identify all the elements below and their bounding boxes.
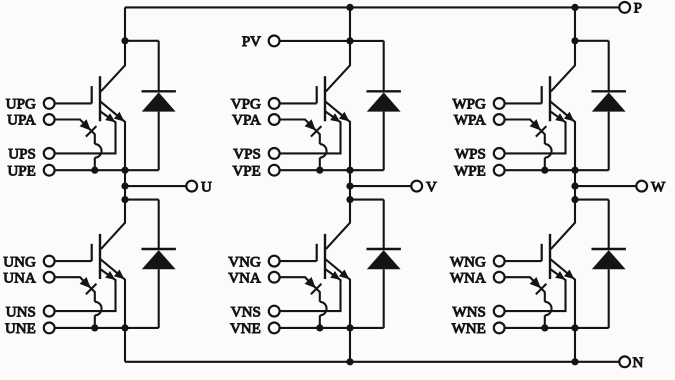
transistor VP gate lead xyxy=(280,102,317,104)
wire WN diode cathode link xyxy=(575,199,609,201)
transistor UN gate bar xyxy=(91,244,93,261)
diode WN body xyxy=(592,250,626,269)
arrow WN main emitter xyxy=(564,270,575,280)
arrow VP sense emitter xyxy=(330,113,340,122)
hop VN aux over sense wire xyxy=(320,302,327,316)
junction UP emitter/trunk xyxy=(121,167,128,174)
svg-text:VPS: VPS xyxy=(233,147,261,163)
svg-text:P: P xyxy=(634,1,642,17)
wire UP aux to emitter row xyxy=(94,158,96,171)
svg-text:UNS: UNS xyxy=(6,304,36,320)
junction UP diode link xyxy=(121,37,128,44)
transistor WN body bar xyxy=(549,234,551,279)
wire W output lead xyxy=(575,185,636,187)
wire WN aux to emitter row xyxy=(544,315,546,328)
svg-text:VNA: VNA xyxy=(228,270,261,286)
junction on N rail (V leg) xyxy=(346,358,353,365)
wire WP aux to emitter row xyxy=(544,158,546,171)
pin UPE xyxy=(44,165,55,176)
junction on P rail (V leg) xyxy=(346,4,353,11)
svg-text:U: U xyxy=(201,180,212,196)
diode VN anode lead xyxy=(383,269,385,328)
arrow VN sense emitter xyxy=(330,271,340,280)
svg-text:UPS: UPS xyxy=(8,147,36,163)
hop WN aux over sense wire xyxy=(545,302,552,316)
arrow UN main emitter xyxy=(114,270,125,280)
tick VN aux xyxy=(311,284,322,295)
wire V lower emitter to N rail xyxy=(349,328,351,362)
wire V output lead xyxy=(350,185,411,187)
diode WP cathode bar xyxy=(592,90,626,92)
wire UP diode cathode lead xyxy=(158,41,160,91)
junction PV / V collector xyxy=(346,37,353,44)
top rail (P bus) xyxy=(125,6,619,8)
svg-text:VPE: VPE xyxy=(232,163,260,179)
junction WP emitter/trunk xyxy=(571,167,578,174)
wire UP diode-top link xyxy=(125,40,159,42)
arrow WN sense emitter xyxy=(555,271,565,280)
transistor UP gate lead xyxy=(55,102,91,104)
pin WPA xyxy=(494,114,505,125)
svg-text:VNE: VNE xyxy=(230,321,261,337)
svg-text:WPA: WPA xyxy=(454,113,486,129)
wire PV to V-phase diode xyxy=(279,40,383,42)
wire UN aux to emitter row xyxy=(94,315,96,328)
transistor WP body bar xyxy=(549,76,551,121)
wire UN aux branch xyxy=(55,277,95,302)
diode VN cathode bar xyxy=(367,248,401,250)
svg-text:UPA: UPA xyxy=(7,113,36,129)
arrow UN aux xyxy=(80,277,91,288)
pin UNG xyxy=(44,256,55,267)
wire VN diode cathode lead xyxy=(383,200,385,249)
wire VP aux branch xyxy=(280,120,320,145)
pin WPS xyxy=(494,148,505,159)
transistor UP body bar xyxy=(99,76,101,121)
svg-text:WPS: WPS xyxy=(455,147,486,163)
wire V output trunk xyxy=(349,170,351,199)
junction UP aux/emitter xyxy=(91,167,98,174)
junction UN diode link xyxy=(121,196,128,203)
wire V-leg collector from P rail xyxy=(326,7,350,91)
diode UP anode lead xyxy=(158,112,160,171)
wire V-leg lower collector diagonal xyxy=(326,200,350,250)
pin WNS xyxy=(494,306,505,317)
pin WNG xyxy=(494,256,505,267)
terminal N xyxy=(619,356,630,367)
diode UP cathode bar xyxy=(142,90,176,92)
wire U lower emitter to N rail xyxy=(124,328,126,362)
transistor UN sense emitter xyxy=(55,269,115,311)
hop WP aux over sense wire xyxy=(545,144,552,158)
bottom rail (N bus) xyxy=(125,361,619,363)
wire VP aux to emitter row xyxy=(319,158,321,171)
junction on N rail (W leg) xyxy=(571,358,578,365)
transistor VP body bar xyxy=(324,76,326,121)
wire U-leg lower collector diagonal xyxy=(101,200,125,250)
terminal PV xyxy=(269,36,280,47)
junction WP aux/emitter xyxy=(541,167,548,174)
junction VP aux/emitter xyxy=(316,167,323,174)
svg-text:WNE: WNE xyxy=(452,321,486,337)
junction WN emitter/trunk xyxy=(571,324,578,331)
pin WPE xyxy=(494,165,505,176)
diode VP cathode bar xyxy=(367,90,401,92)
wire UP emitter row xyxy=(55,169,159,171)
pin WNA xyxy=(494,272,505,283)
terminal W xyxy=(636,181,647,192)
svg-text:WNA: WNA xyxy=(450,270,486,286)
tick WN aux xyxy=(536,284,547,295)
transistor WP gate bar xyxy=(541,86,543,103)
arrow UP aux xyxy=(80,119,91,130)
pin VPG xyxy=(269,98,280,109)
junction VN emitter/trunk xyxy=(346,324,353,331)
wire VP diode cathode lead xyxy=(383,41,385,91)
junction WN diode link xyxy=(571,196,578,203)
svg-text:PV: PV xyxy=(242,34,261,50)
junction VN aux/emitter xyxy=(316,324,323,331)
tick UP aux xyxy=(86,126,97,137)
diode VN body xyxy=(367,250,401,269)
pin UNS xyxy=(44,306,55,317)
pin VPA xyxy=(269,114,280,125)
transistor WN sense emitter xyxy=(505,269,565,311)
svg-text:UNG: UNG xyxy=(3,254,36,270)
wire U output lead xyxy=(125,185,186,187)
pin VNS xyxy=(269,306,280,317)
diode UN body xyxy=(142,250,176,269)
svg-text:VPG: VPG xyxy=(231,97,261,113)
diode VP body xyxy=(367,92,401,111)
pin UNA xyxy=(44,272,55,283)
svg-text:V: V xyxy=(426,180,437,196)
diode UN anode lead xyxy=(158,269,160,328)
hop UP aux over sense wire xyxy=(95,144,102,158)
transistor UN body bar xyxy=(99,234,101,279)
pin VNG xyxy=(269,256,280,267)
transistor WP gate lead xyxy=(505,102,542,104)
wire VN emitter row xyxy=(280,327,384,329)
transistor VP gate bar xyxy=(316,86,318,103)
terminal V xyxy=(411,181,422,192)
diode UN cathode bar xyxy=(142,248,176,250)
transistor WP main emitter xyxy=(550,101,575,170)
junction on P rail (W leg) xyxy=(571,4,578,11)
arrow WP sense emitter xyxy=(555,113,565,122)
transistor VN gate bar xyxy=(316,244,318,261)
wire U output trunk xyxy=(124,170,126,199)
transistor UP sense emitter xyxy=(55,111,115,153)
wire UN emitter row xyxy=(55,327,159,329)
transistor WN gate lead xyxy=(505,260,542,262)
junction UN emitter/trunk xyxy=(121,324,128,331)
hop VP aux over sense wire xyxy=(320,144,327,158)
svg-text:VNS: VNS xyxy=(231,304,261,320)
transistor WN main emitter xyxy=(550,259,575,328)
transistor VP main emitter xyxy=(325,101,350,170)
wire WP emitter row xyxy=(505,169,609,171)
wire WN aux branch xyxy=(505,277,545,302)
wire U-leg collector from P rail xyxy=(101,7,125,91)
diode VP anode lead xyxy=(383,112,385,171)
pin VPE xyxy=(269,165,280,176)
pin UPG xyxy=(44,98,55,109)
arrow VN aux xyxy=(305,277,316,288)
wire UN diode cathode link xyxy=(125,199,159,201)
arrow UP sense emitter xyxy=(105,113,115,122)
wire WN emitter row xyxy=(505,327,609,329)
tick VP aux xyxy=(311,126,322,137)
arrow VP aux xyxy=(305,119,316,130)
svg-text:UPE: UPE xyxy=(7,163,35,179)
arrow WN aux xyxy=(530,277,541,288)
svg-text:UNA: UNA xyxy=(3,270,36,286)
pin UPA xyxy=(44,114,55,125)
pin WPG xyxy=(494,98,505,109)
junction UN aux/emitter xyxy=(91,324,98,331)
pin VNE xyxy=(269,323,280,334)
wire W lower emitter to N rail xyxy=(574,328,576,362)
arrow WP aux xyxy=(530,119,541,130)
diode WP anode lead xyxy=(608,112,610,171)
junction U output xyxy=(121,183,128,190)
svg-text:WNS: WNS xyxy=(452,304,485,320)
tick WP aux xyxy=(536,126,547,137)
wire W-leg collector from P rail xyxy=(551,7,575,91)
wire W-leg lower collector diagonal xyxy=(551,200,575,250)
svg-text:W: W xyxy=(651,180,666,196)
arrow UN sense emitter xyxy=(105,271,115,280)
junction VN diode link xyxy=(346,196,353,203)
wire W output trunk xyxy=(574,170,576,199)
svg-text:N: N xyxy=(633,355,644,371)
wire WP aux branch xyxy=(505,120,545,145)
diode WN cathode bar xyxy=(592,248,626,250)
diode WN anode lead xyxy=(608,269,610,328)
svg-text:UPG: UPG xyxy=(6,97,36,113)
junction VP emitter/trunk xyxy=(346,167,353,174)
transistor VN body bar xyxy=(324,234,326,279)
transistor VN gate lead xyxy=(280,260,317,262)
wire WN diode cathode lead xyxy=(608,200,610,249)
svg-text:WNG: WNG xyxy=(450,254,486,270)
svg-text:VPA: VPA xyxy=(232,113,261,129)
junction W output xyxy=(571,183,578,190)
transistor VN main emitter xyxy=(325,259,350,328)
svg-text:WPG: WPG xyxy=(452,97,486,113)
junction WP diode link xyxy=(571,37,578,44)
svg-text:UNE: UNE xyxy=(5,321,36,337)
pin UNE xyxy=(44,323,55,334)
hop UN aux over sense wire xyxy=(95,302,102,316)
arrow UP main emitter xyxy=(114,112,125,122)
wire VP emitter row xyxy=(280,169,384,171)
transistor UP main emitter xyxy=(100,101,125,170)
wire UN diode cathode lead xyxy=(158,200,160,249)
transistor UN gate lead xyxy=(55,260,91,262)
transistor VP sense emitter xyxy=(280,111,340,153)
terminal P xyxy=(619,2,630,13)
terminal U xyxy=(186,181,197,192)
diode UP body xyxy=(142,92,176,111)
pin WNE xyxy=(494,323,505,334)
transistor UN main emitter xyxy=(100,259,125,328)
junction WN aux/emitter xyxy=(541,324,548,331)
arrow WP main emitter xyxy=(564,112,575,122)
transistor VN sense emitter xyxy=(280,269,340,311)
transistor WP sense emitter xyxy=(505,111,565,153)
tick UN aux xyxy=(86,284,97,295)
pin UPS xyxy=(44,148,55,159)
transistor WN gate bar xyxy=(541,244,543,261)
wire WP diode cathode lead xyxy=(608,41,610,91)
pin VNA xyxy=(269,272,280,283)
diode WP body xyxy=(592,92,626,111)
junction V output xyxy=(346,183,353,190)
svg-text:WPE: WPE xyxy=(454,163,486,179)
pin VPS xyxy=(269,148,280,159)
wire VN aux branch xyxy=(280,277,320,302)
wire VN diode cathode link xyxy=(350,199,384,201)
transistor UP gate bar xyxy=(91,86,93,103)
wire VN aux to emitter row xyxy=(319,315,321,328)
arrow VN main emitter xyxy=(339,270,350,280)
arrow VP main emitter xyxy=(339,112,350,122)
svg-text:VNG: VNG xyxy=(228,254,261,270)
wire UP aux branch xyxy=(55,120,95,145)
wire WP diode-top link xyxy=(575,40,609,42)
